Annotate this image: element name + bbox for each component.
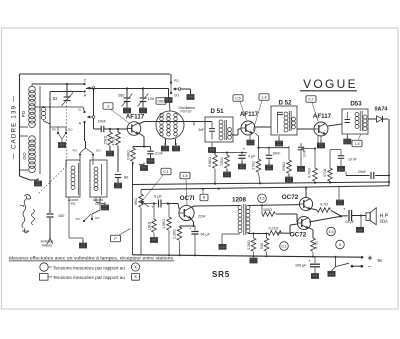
svg-text:15KΩ: 15KΩ — [104, 135, 108, 144]
svg-text:0,21Ω: 0,21Ω — [269, 227, 279, 231]
boxed label P — [111, 235, 121, 242]
callout 0.7 — [312, 103, 318, 122]
coil GO cadre — [20, 136, 35, 173]
svg-text:100 µF: 100 µF — [295, 264, 307, 268]
label 47K — [112, 136, 116, 145]
ground trimmer 120 — [139, 105, 146, 113]
svg-text:VOGUE: VOGUE — [303, 77, 358, 91]
svg-text:X: X — [134, 264, 137, 269]
svg-text:64 µF: 64 µF — [201, 233, 211, 237]
osc winding 2 — [167, 113, 171, 136]
boxed label OND — [156, 98, 166, 105]
legend circled X — [131, 263, 139, 271]
wire osc top — [168, 89, 170, 98]
ground bus — [250, 256, 257, 263]
D51 secondary — [228, 128, 232, 140]
svg-text:+: + — [368, 254, 373, 263]
svg-text:4,7Ω: 4,7Ω — [315, 241, 319, 249]
wire emitter node — [133, 145, 151, 147]
resistor 47K — [116, 129, 121, 172]
capacitor 0.4uF out — [341, 207, 366, 224]
IF transformer D53 — [342, 109, 368, 134]
svg-text:150: 150 — [58, 214, 64, 218]
svg-text:700Ω: 700Ω — [220, 157, 224, 166]
ground AF117 if1 — [247, 135, 254, 145]
label OC71 — [180, 195, 195, 202]
svg-text:4,7Ω: 4,7Ω — [320, 203, 328, 207]
callout 0.1 vol — [143, 175, 163, 200]
legend square symbol — [40, 274, 53, 281]
label 4.7 fb — [320, 203, 328, 207]
transformer 1208 core — [244, 204, 246, 235]
label 0.21 — [269, 227, 279, 231]
svg-text:4 µF: 4 µF — [248, 155, 256, 159]
accord PO winding — [71, 163, 79, 195]
svg-text:PO: PO — [21, 110, 26, 117]
label 21nF — [155, 152, 164, 156]
label 10nF b — [348, 158, 357, 162]
wire trimmer link — [86, 87, 169, 89]
label 4.7 em — [315, 241, 319, 249]
svg-text:1208: 1208 — [232, 197, 247, 204]
svg-text:PO: PO — [71, 202, 76, 206]
wire to OC71 base — [167, 202, 180, 209]
wire rail lower — [141, 186, 389, 190]
D52 core — [290, 111, 292, 131]
svg-text:10 nF: 10 nF — [348, 158, 357, 162]
label OC72 upper — [282, 194, 299, 201]
callout 1.4 — [253, 101, 262, 132]
capacitor 150 — [47, 214, 54, 217]
resistor 50 drive — [264, 234, 269, 256]
ground AF117 if2 — [317, 136, 324, 148]
label D53 — [350, 101, 362, 108]
ground 700 — [223, 169, 230, 177]
svg-text:5 µF: 5 µF — [154, 195, 162, 199]
wire bottom bus — [133, 254, 363, 258]
svg-text:9v: 9v — [378, 258, 384, 263]
legend boxed X — [131, 273, 139, 280]
ground cadre — [34, 178, 41, 186]
label 2.2K — [173, 229, 177, 239]
legend line 3 — [53, 275, 125, 280]
D52 primary — [278, 112, 289, 133]
transistor OC72 lower — [297, 216, 310, 229]
switch cadre GO lever — [58, 133, 66, 142]
svg-text:2ΩA: 2ΩA — [380, 218, 388, 223]
ground frame switch — [187, 95, 194, 100]
car antenna doodle — [20, 195, 35, 234]
switch contact PO top — [170, 79, 179, 84]
transistor AF117 mixer — [127, 122, 141, 136]
label D52 — [278, 100, 292, 107]
svg-text:X: X — [134, 274, 137, 279]
switch accord PO top — [73, 148, 86, 161]
svg-text:29nF: 29nF — [98, 120, 107, 124]
svg-text:P: P — [114, 237, 117, 241]
callout 3 — [111, 110, 129, 124]
wire 1208 sec top — [248, 204, 300, 214]
speaker HP — [366, 208, 376, 225]
switch battery — [336, 257, 354, 268]
svg-text:D 51: D 51 — [210, 108, 224, 115]
ground avc — [336, 187, 343, 205]
D51 bottom stub — [211, 142, 213, 147]
label 100 drive — [263, 208, 272, 212]
label 12K — [148, 221, 152, 230]
label 80 — [124, 176, 128, 180]
D52 secondary — [292, 117, 296, 129]
label 260 — [118, 93, 125, 98]
boxed voltage 1.5 — [352, 140, 362, 147]
label 4.6K — [162, 219, 166, 229]
label AF117 if1 — [240, 111, 259, 118]
ground D52 — [275, 136, 282, 146]
switch contact C2 — [78, 108, 85, 113]
ground accord GO — [96, 197, 109, 210]
svg-text:C: C — [84, 79, 87, 83]
svg-text:120: 120 — [148, 96, 155, 101]
boxed voltage 0.1 vol — [161, 168, 171, 175]
svg-text:Voiture: Voiture — [42, 244, 53, 248]
resistor 4.7 fb — [317, 208, 341, 216]
svg-text:470Ω: 470Ω — [323, 168, 327, 177]
transistor AF117 if2 — [314, 122, 328, 136]
capacitor 21nF — [147, 147, 153, 158]
ground 12K — [150, 238, 157, 243]
callout 1.8 — [186, 179, 187, 205]
svg-text:04 µF: 04 µF — [345, 220, 355, 224]
svg-text:PO-GO: PO-GO — [181, 110, 192, 114]
resistor 15K — [108, 129, 113, 150]
label SR5 — [212, 270, 230, 279]
svg-text:Tensions mesurées par rapport: Tensions mesurées par rapport au — [53, 275, 125, 280]
wire rail upper — [133, 181, 390, 184]
label Oscillateur — [179, 106, 197, 114]
D53 core — [360, 111, 362, 131]
resistor 2.2K — [177, 226, 182, 255]
svg-text:47KΩ: 47KΩ — [112, 136, 116, 145]
ground osc 1 — [161, 143, 168, 151]
svg-text:GO: GO — [22, 152, 27, 160]
coil antenna coupling — [41, 107, 45, 119]
cadre label — [11, 95, 18, 160]
resistor 4.7 em — [311, 238, 316, 257]
svg-text:3nF: 3nF — [198, 128, 204, 132]
switch cadre GO contacts — [50, 127, 73, 134]
wire D52 out — [297, 128, 314, 130]
wire left frame — [19, 74, 21, 176]
svg-text:10nF: 10nF — [303, 150, 307, 158]
svg-text:6,8KΩ: 6,8KΩ — [208, 157, 212, 167]
label OC72 lower — [290, 232, 307, 239]
switch wiper 2 — [87, 116, 95, 119]
title VOGUE — [300, 77, 358, 91]
resistor 6.8K mixer — [131, 147, 136, 165]
label 22nF — [198, 215, 206, 219]
label accord PO — [68, 198, 78, 206]
label Antenne Voiture — [41, 240, 54, 248]
label 50 drive — [260, 242, 264, 249]
label 29nF — [98, 120, 107, 124]
wire emitter OC71 — [180, 219, 196, 228]
wire OC72u collector — [305, 188, 307, 198]
svg-text:X: X — [203, 195, 206, 200]
ground osc 2 — [172, 143, 179, 151]
D53 primary — [355, 113, 359, 129]
wire OC72u emitter — [311, 209, 318, 211]
wire left drop — [132, 162, 134, 255]
svg-text:Tensions mesurées par rapport: Tensions mesurées par rapport au — [53, 265, 125, 270]
svg-text:AF117: AF117 — [240, 111, 259, 118]
ground 100uF — [311, 274, 318, 279]
svg-text:4,5: 4,5 — [329, 230, 334, 234]
svg-text:100Ω: 100Ω — [263, 208, 272, 212]
wire emitter line b — [255, 134, 289, 149]
transformer 1208 primary — [238, 206, 242, 233]
label 6.8K — [208, 157, 212, 167]
svg-text:29nF: 29nF — [358, 170, 367, 174]
svg-text:OC72: OC72 — [290, 232, 307, 239]
oscillator can — [156, 111, 184, 139]
svg-text:62: 62 — [53, 96, 58, 101]
label PO — [21, 110, 26, 117]
svg-text:AF117: AF117 — [126, 114, 145, 121]
coil PO cadre — [20, 84, 35, 128]
switch contact C1 — [83, 79, 86, 86]
switch wiper 1 — [87, 87, 95, 90]
label 6.8K mixer — [127, 150, 131, 160]
svg-text:16nF: 16nF — [272, 152, 281, 156]
svg-text:+: + — [243, 147, 246, 152]
D53 capacitor — [345, 112, 350, 123]
label 700 — [220, 157, 224, 166]
resistor 6.8K — [213, 153, 218, 184]
wire OC72l emitter — [309, 228, 314, 239]
transistor OC71 — [179, 205, 194, 220]
callout P — [119, 229, 131, 236]
svg-text:D 52: D 52 — [278, 100, 292, 107]
svg-text:0A74: 0A74 — [375, 107, 388, 113]
wire accord PO bottom — [69, 197, 83, 242]
transistor OC72 upper — [299, 197, 312, 210]
svg-text:Mesures effectuées avec un vol: Mesures effectuées avec un voltmètre à l… — [9, 255, 174, 260]
ground cadre GO switch — [58, 143, 65, 148]
wire D51 out — [232, 129, 242, 135]
resistor 29K — [287, 146, 292, 176]
svg-text:1,8: 1,8 — [182, 174, 187, 178]
boxed voltage 0.5 — [233, 95, 243, 102]
antenna arrowhead — [47, 238, 52, 244]
svg-text:12KΩ: 12KΩ — [148, 221, 152, 230]
wire base AF117-1 — [104, 128, 127, 130]
ground 21nF — [147, 156, 154, 164]
capacitor 29nF det — [346, 172, 389, 180]
legend circle symbol — [40, 263, 52, 271]
switch contact GO top — [170, 84, 180, 98]
boxed voltage 1.8 — [180, 172, 190, 179]
resistor 12K — [152, 202, 157, 237]
label 62 — [53, 96, 58, 101]
D51 primary — [219, 120, 223, 140]
svg-text:0,5: 0,5 — [235, 96, 240, 100]
wire detector — [368, 118, 388, 120]
resistor 0.21 — [268, 224, 298, 235]
battery terminal pos — [361, 254, 383, 264]
wire to ground — [181, 89, 191, 94]
svg-text:1,5: 1,5 — [354, 142, 359, 146]
capacitor 80 — [115, 175, 121, 183]
boxed voltage 1.4 — [259, 94, 269, 101]
svg-text:GO: GO — [95, 216, 100, 220]
label 15K — [104, 135, 108, 144]
wire antenna line upper — [44, 92, 84, 214]
wire osc bottom stubs — [166, 139, 176, 145]
label 5K — [134, 198, 138, 205]
pot wiper arrow — [141, 201, 150, 207]
svg-text:C: C — [78, 108, 81, 112]
trimmer 260 — [122, 89, 133, 107]
ground 29K — [285, 174, 292, 182]
svg-text:GO: GO — [96, 149, 101, 153]
ground 15K — [106, 148, 113, 156]
svg-text:80: 80 — [124, 176, 128, 180]
label HP — [380, 213, 389, 223]
svg-text:29KΩ: 29KΩ — [282, 162, 286, 171]
label OA74 — [375, 107, 388, 113]
svg-text:GO: GO — [68, 128, 73, 132]
svg-text:X: X — [339, 242, 342, 247]
svg-text:5KΩ: 5KΩ — [134, 198, 138, 205]
ground 1208 — [219, 244, 226, 249]
transistor AF117 if1 — [241, 121, 255, 135]
label 150 — [58, 214, 64, 218]
label 120 — [148, 96, 155, 101]
switch accord bottom — [76, 214, 101, 222]
label 4.7K out — [308, 168, 312, 178]
switch contact A2 — [79, 121, 86, 126]
svg-text:OC72: OC72 — [282, 194, 299, 201]
wire antenna line lower — [49, 218, 51, 238]
svg-text:6,8KΩ: 6,8KΩ — [127, 150, 131, 160]
IF transformer D52 — [271, 106, 297, 135]
svg-text:0,1: 0,1 — [163, 170, 168, 174]
resistor 270 — [256, 148, 261, 184]
label 470 — [323, 168, 327, 177]
switch accord GO top — [86, 148, 102, 165]
resistor 470 — [328, 150, 333, 183]
resistor 4.6K — [167, 204, 172, 256]
label 29K — [282, 162, 286, 171]
D52 inner cap — [277, 112, 283, 114]
accord PO box — [66, 160, 80, 197]
boxed voltage 3 — [103, 103, 113, 110]
wire collector if2 — [328, 124, 342, 126]
svg-text:PO: PO — [174, 79, 179, 83]
osc winding 3 — [174, 113, 178, 136]
ground batt — [328, 267, 336, 277]
label D51 — [210, 108, 224, 115]
circled ref X — [336, 240, 345, 249]
boxed voltage 0.7 — [306, 96, 316, 103]
svg-text:— CADRE 139 —: — CADRE 139 — — [11, 95, 18, 160]
svg-text:270Ω: 270Ω — [252, 161, 256, 170]
label 29nF det — [358, 170, 367, 174]
wire battery neg — [352, 265, 372, 271]
circled voltage 4.5 a — [258, 194, 267, 203]
ground trimmer 260 — [123, 105, 130, 113]
ground D51 — [208, 148, 215, 153]
D53 secondary — [363, 115, 367, 131]
svg-text:1,4: 1,4 — [261, 95, 266, 99]
label 2.2K drive — [247, 240, 251, 250]
svg-text:PO: PO — [76, 217, 81, 221]
wire top frame — [20, 73, 171, 75]
label GO — [22, 152, 27, 160]
diode OA74 — [377, 116, 383, 122]
ground 10nF a — [297, 166, 304, 171]
wire accord feed — [85, 141, 87, 148]
ferrite rod — [39, 86, 41, 174]
ground 80 — [114, 180, 121, 188]
callout 1.5 — [358, 134, 361, 140]
svg-text:4,6KΩ: 4,6KΩ — [162, 219, 166, 229]
ground 10nF b — [337, 166, 344, 171]
svg-text:260: 260 — [118, 93, 125, 98]
D51 core — [225, 120, 227, 140]
accord GO box — [90, 160, 107, 197]
label AF117 if2 — [313, 113, 332, 120]
switch contact A1 — [83, 90, 86, 97]
resistor 2.2K drive — [251, 234, 256, 256]
circled voltage 0.1 b — [280, 242, 289, 251]
legend line 2 — [53, 265, 125, 270]
ground 4uF — [238, 161, 245, 169]
capacitor 10nF b — [330, 150, 344, 167]
transformer 1208 secondary — [246, 206, 250, 233]
wire collector if1 — [256, 126, 272, 128]
accord GO winding — [94, 164, 102, 195]
wire switch pole2 out — [94, 118, 102, 129]
svg-text:D53: D53 — [350, 101, 362, 108]
ground 16nF — [265, 162, 272, 170]
wire right edge — [388, 119, 390, 186]
capacitor 64uF — [189, 226, 210, 255]
ground accord bottom — [79, 240, 86, 248]
wire antenna top bus — [32, 83, 84, 85]
wire contact A2 down — [84, 122, 86, 141]
wire cadre bottom — [20, 176, 38, 180]
wire accord GO bottom — [92, 197, 100, 219]
svg-text:0,7: 0,7 — [308, 97, 313, 101]
svg-text:PO: PO — [73, 149, 78, 153]
label 1208 — [232, 197, 247, 204]
wire collector mixer — [139, 122, 213, 126]
ground osc top — [165, 98, 172, 112]
osc winding 1 — [160, 113, 164, 136]
resistor 700 — [225, 152, 230, 171]
svg-text:22nF: 22nF — [198, 215, 206, 219]
capacitor 16nF — [266, 148, 281, 164]
capacitor 29nF — [101, 126, 104, 132]
capacitor 4uF — [238, 147, 256, 164]
wire emitter line a — [212, 152, 247, 154]
capacitor 10nF a — [298, 143, 304, 166]
legend line 1 — [9, 255, 174, 261]
boxed ref X — [200, 189, 208, 201]
svg-text:3: 3 — [107, 104, 109, 108]
circled voltage 4.5 b — [327, 227, 336, 236]
